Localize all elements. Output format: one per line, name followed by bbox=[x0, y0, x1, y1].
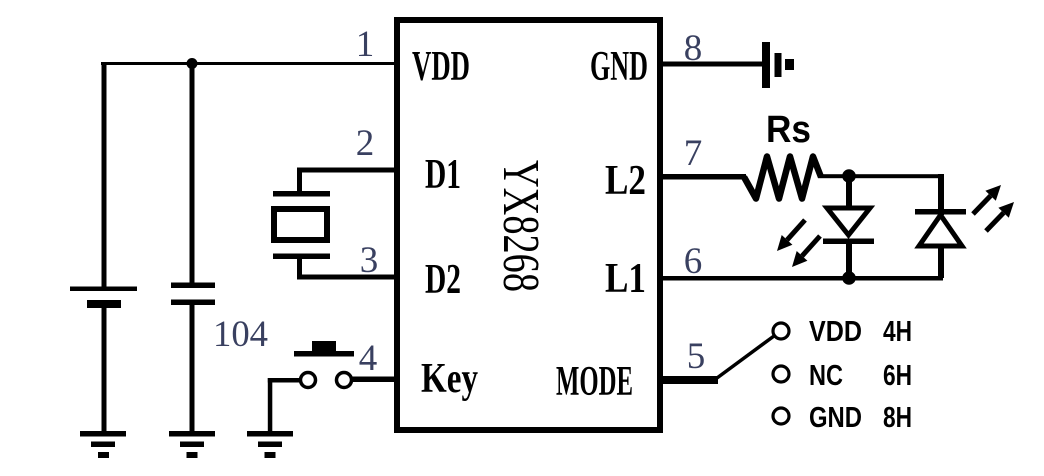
svg-text:D1: D1 bbox=[425, 152, 461, 198]
svg-text:7: 7 bbox=[684, 133, 703, 174]
LED D1 left bbox=[823, 176, 874, 278]
wire pin 6 L1 bbox=[660, 276, 943, 281]
LED D2 emission arrows bbox=[973, 185, 1014, 231]
switch label GND 8H bbox=[809, 402, 912, 434]
switch contact NC bbox=[773, 366, 789, 382]
svg-text:L2: L2 bbox=[605, 158, 646, 204]
switch contact VDD bbox=[773, 323, 789, 339]
svg-text:104: 104 bbox=[213, 314, 268, 355]
node junction top bbox=[842, 169, 856, 183]
svg-text:VDD: VDD bbox=[809, 316, 862, 348]
switch label VDD 4H bbox=[809, 316, 912, 348]
svg-text:NC: NC bbox=[809, 360, 843, 392]
wire pin 5 MODE bbox=[660, 376, 718, 384]
svg-text:6: 6 bbox=[684, 241, 703, 282]
svg-text:1: 1 bbox=[356, 24, 375, 65]
wire capacitor top stub bbox=[190, 63, 195, 283]
wire resistor to LED2 bbox=[818, 174, 943, 178]
op-amp U1 YX8268 body bbox=[397, 20, 660, 430]
svg-text:4H: 4H bbox=[883, 316, 912, 348]
wire pin 2 D1 bbox=[297, 168, 397, 196]
svg-text:5: 5 bbox=[687, 336, 706, 377]
pushbutton SW1 bbox=[294, 341, 354, 388]
ground capacitor bbox=[169, 431, 215, 458]
switch label NC 6H bbox=[809, 360, 912, 392]
wire VDD top rail bbox=[101, 62, 397, 65]
ground battery bbox=[80, 431, 126, 458]
LED D1 emission arrows bbox=[777, 220, 820, 267]
ground pin 8 bbox=[762, 42, 794, 88]
wire battery top stub bbox=[102, 62, 107, 288]
svg-text:YX8268: YX8268 bbox=[492, 160, 549, 292]
svg-text:MODE: MODE bbox=[556, 359, 633, 405]
svg-text:Rs: Rs bbox=[766, 109, 811, 151]
svg-text:D2: D2 bbox=[425, 257, 461, 303]
svg-text:GND: GND bbox=[809, 402, 862, 434]
capacitor C1 104 bbox=[171, 283, 215, 306]
svg-text:6H: 6H bbox=[883, 360, 912, 392]
LED D2 right bbox=[915, 174, 966, 278]
wire pin 7 L2 bbox=[660, 174, 746, 180]
wire pin 8 GND bbox=[660, 62, 764, 67]
crystal Y1 bbox=[273, 191, 330, 259]
svg-text:Key: Key bbox=[421, 356, 478, 402]
switch blade MODE bbox=[717, 336, 774, 378]
svg-text:GND: GND bbox=[590, 44, 648, 90]
node junction VDD rail bbox=[187, 58, 198, 69]
wire button to ground bbox=[268, 378, 301, 433]
resistor Rs bbox=[744, 157, 821, 199]
svg-text:VDD: VDD bbox=[412, 44, 470, 90]
wire capacitor bottom stub bbox=[190, 305, 195, 433]
wire pin 3 D2 bbox=[297, 257, 397, 280]
svg-text:2: 2 bbox=[356, 123, 375, 164]
battery BT1 bbox=[70, 287, 137, 309]
wire battery bottom stub bbox=[102, 308, 107, 433]
switch contact GND bbox=[773, 408, 789, 424]
svg-text:L1: L1 bbox=[605, 256, 646, 302]
svg-text:3: 3 bbox=[360, 240, 379, 281]
node junction bottom bbox=[842, 271, 856, 285]
svg-text:8H: 8H bbox=[883, 402, 912, 434]
wire pin 4 Key bbox=[351, 377, 397, 383]
svg-text:4: 4 bbox=[359, 338, 378, 379]
ground button bbox=[247, 431, 293, 458]
